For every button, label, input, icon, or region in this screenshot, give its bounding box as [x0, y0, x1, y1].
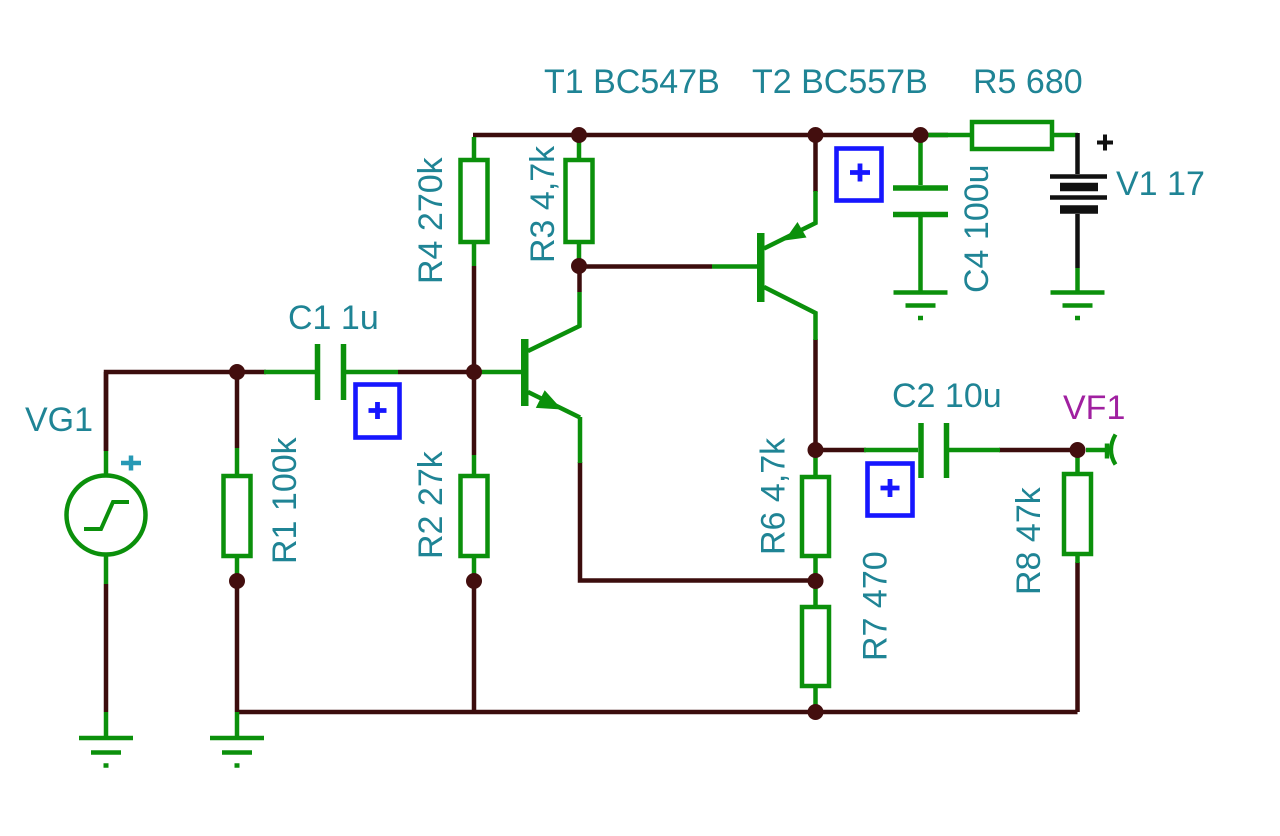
polarity box C2	[868, 464, 913, 516]
wire R3 node to T2 base	[579, 264, 712, 269]
ground (VG1)	[79, 738, 133, 766]
node dot R6/R7	[808, 573, 824, 589]
ground (VG1 stem)	[104, 712, 109, 737]
resistor R6	[813, 452, 818, 477]
node dot T1 base	[466, 364, 482, 380]
generator VG1	[104, 372, 109, 451]
battery V1	[1075, 133, 1080, 174]
polarity box C1	[356, 385, 400, 438]
svg-text:R6 4,7k: R6 4,7k	[755, 437, 793, 555]
svg-text:VF1: VF1	[1063, 389, 1125, 427]
wire T1 emitter to R6/R7 node	[580, 462, 812, 581]
svg-text:R8 47k: R8 47k	[1010, 486, 1048, 595]
transistor T2	[712, 264, 757, 269]
resistor R4	[472, 137, 477, 160]
capacitor C1	[264, 370, 315, 375]
resistor R3	[577, 141, 582, 160]
output pin VF1	[1086, 448, 1106, 453]
svg-text:C4 100u: C4 100u	[958, 164, 996, 293]
battery plus polarity	[1097, 135, 1113, 151]
wire R2 bottom to ground rail	[472, 576, 477, 712]
svg-text:VG1: VG1	[25, 401, 93, 439]
wire rail to T2 emitter	[813, 140, 818, 192]
svg-text:R7 470: R7 470	[857, 551, 895, 661]
node dot VF1	[1070, 442, 1086, 458]
node dot R3 bottom	[571, 258, 587, 274]
svg-text:R3 4,7k: R3 4,7k	[524, 145, 562, 263]
svg-text:R5 680: R5 680	[973, 63, 1083, 101]
resistor R8	[1075, 453, 1080, 474]
wire C1 right to base node	[398, 370, 468, 375]
wire output node to C2	[816, 448, 867, 453]
resistor R1	[235, 448, 240, 476]
node dot C1 left	[229, 364, 245, 380]
ground (C4)	[894, 293, 948, 319]
wire T2 collector down to output node	[813, 339, 818, 450]
svg-text:C1 1u: C1 1u	[288, 299, 379, 337]
node dot rail T2	[808, 127, 824, 143]
resistor R7	[813, 583, 818, 607]
resistor R2	[472, 455, 477, 476]
VG1 plus polarity	[121, 456, 141, 471]
ground (V1)	[1051, 293, 1105, 319]
svg-text:T1 BC547B: T1 BC547B	[544, 63, 720, 101]
wire VG1 bottom	[104, 584, 109, 712]
wire R3 node down to T1 collector	[577, 266, 582, 292]
node dot rail R3	[571, 127, 587, 143]
wire R1 bottom to ground rail	[235, 576, 240, 712]
wire top supply rail	[473, 133, 948, 138]
svg-text:V1 17: V1 17	[1116, 165, 1205, 203]
transistor T1	[481, 370, 521, 375]
wire R4 column (C1 node up to R4, down to R2)	[472, 266, 477, 455]
node dot output	[808, 442, 824, 458]
node dot rail C4	[913, 127, 929, 143]
svg-text:R4 270k: R4 270k	[412, 156, 450, 284]
polarity box C4	[837, 149, 882, 201]
svg-text:R2 27k: R2 27k	[412, 450, 450, 559]
wire C2 right toward VF1 node	[999, 448, 1070, 453]
svg-text:R1 100k: R1 100k	[266, 436, 304, 564]
wire R8 bottom to ground rail	[1075, 562, 1080, 712]
svg-text:C2 10u: C2 10u	[892, 377, 1002, 415]
capacitor C4	[918, 140, 923, 185]
wire ground rail	[237, 710, 1078, 715]
node dot R1 bottom	[229, 573, 245, 589]
wire VG1 top to C1 node	[106, 372, 266, 451]
node dot R7 bottom	[808, 704, 824, 720]
capacitor C2	[864, 448, 918, 453]
node dot R2 bottom	[466, 573, 482, 589]
wire R1 top	[235, 372, 240, 448]
ground (rail)	[210, 712, 264, 766]
svg-text:T2 BC557B: T2 BC557B	[752, 63, 928, 101]
resistor R5	[926, 133, 972, 138]
